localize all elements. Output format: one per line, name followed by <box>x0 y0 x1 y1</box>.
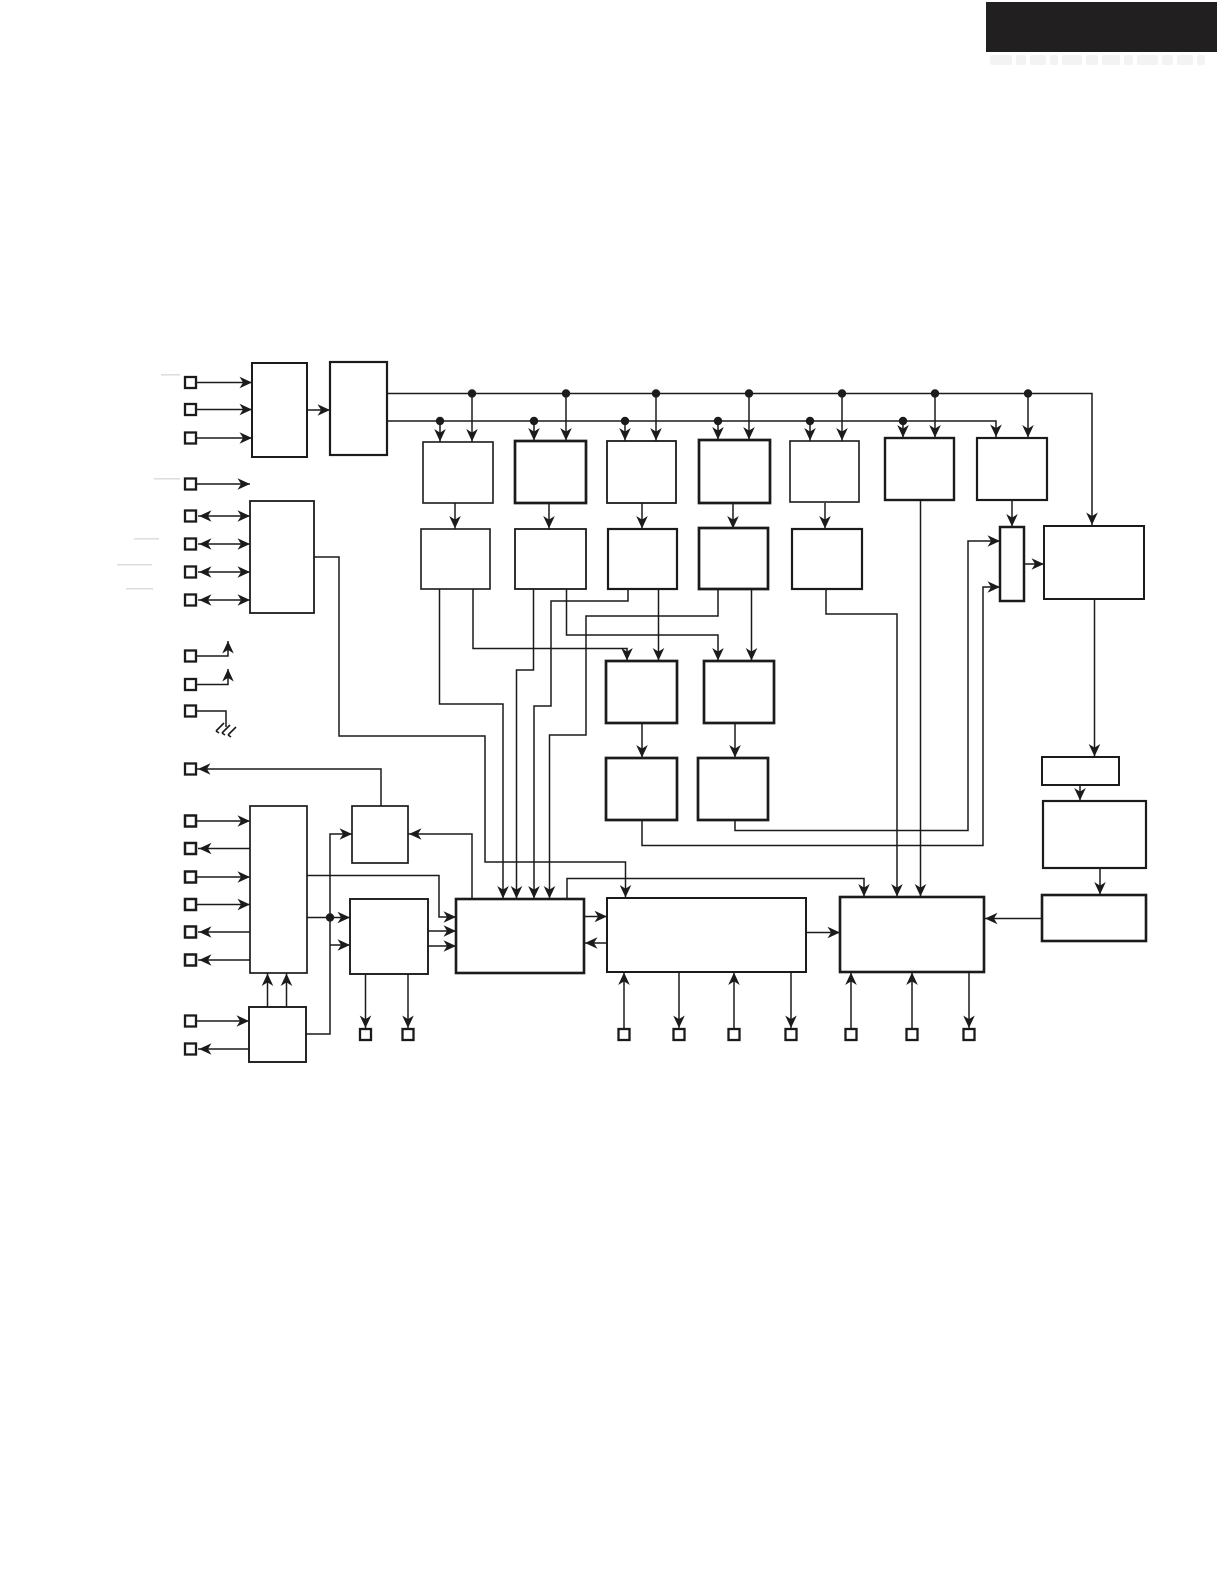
wire block K to block L <box>584 911 607 923</box>
wire block L to block K <box>584 937 607 949</box>
wire top-row to second-row at x=733 <box>727 503 739 529</box>
wire block J down to bottom pad 1 <box>360 974 372 1028</box>
wire second-row block3 right output to block M1 <box>653 589 665 661</box>
wire top-row block 7 down to narrow block N <box>1006 500 1018 527</box>
wire block L down to bottom pad 6 <box>785 972 797 1028</box>
junction dot bus1 over block 6 <box>931 389 939 397</box>
header bar (solid black title block) <box>986 2 1217 52</box>
block M2 <box>704 661 774 723</box>
wire top-row to second-row at x=549 <box>543 503 555 529</box>
second-row block 1 <box>421 529 490 589</box>
junction dot bus2 over block 6 <box>899 417 907 425</box>
junction dot bus1 over block 7 <box>1024 389 1032 397</box>
wire pad group1 #3 to block A <box>196 432 252 444</box>
pad CN group1 #2 <box>185 404 196 415</box>
wire bus1 drop into top-row block 6 <box>929 394 941 439</box>
bottom pad 5 <box>729 1029 740 1040</box>
pad group6 #2 <box>185 843 196 854</box>
top-row block 7 <box>977 438 1047 500</box>
wire block G to block M right edge <box>984 913 1042 925</box>
block I <box>352 806 408 863</box>
wire block P to block H arrow 1 <box>262 973 274 1007</box>
junction dot bus1 over block 2 <box>562 389 570 397</box>
wire block D down to block E <box>1089 599 1101 757</box>
wire bus1 drop into top-row block 2 <box>560 394 572 442</box>
top-row block 3 <box>607 441 676 503</box>
wire second-row block5 output to block M <box>826 589 903 897</box>
junction dot H/P riser <box>326 913 334 921</box>
junction dot bus2 over block 4 <box>714 417 722 425</box>
bottom pad 6 <box>786 1029 797 1040</box>
top-row block 5 <box>790 441 859 502</box>
pad CN group1 #1 <box>185 377 196 388</box>
wire block H out to pad group6 #6 <box>198 954 250 966</box>
wire bidirectional pad group3 #3 to block C <box>198 566 250 578</box>
wire bus2 drop into top-row block 4 <box>712 421 724 440</box>
wire block L to block M left edge <box>806 927 840 939</box>
wire block J down to bottom pad 2 <box>402 974 414 1028</box>
pad single group5 <box>185 764 196 775</box>
wire block J to block K lower <box>428 940 456 952</box>
pad group3 #2 <box>185 539 196 550</box>
wire block I top to pad group5 <box>196 763 381 806</box>
wire block M1 to block M3 <box>636 723 648 758</box>
top-row block 1 <box>423 442 493 503</box>
wire pad group6 #4 into block H <box>196 899 250 911</box>
faint label remnant line <box>126 588 153 590</box>
pad CN group1 #3 <box>185 433 196 444</box>
wire bus2 drop into top-row block 3 <box>619 421 631 441</box>
bottom pad 7 <box>846 1029 857 1040</box>
block D <box>1044 526 1144 599</box>
wire pad group6 #1 into block H <box>196 815 250 827</box>
wire riser from block P joining junction, up to block I <box>306 828 352 1034</box>
wire pad group6 #3 into block H <box>196 871 250 883</box>
pad group3 #1 <box>185 511 196 522</box>
pad group3 #3 <box>185 567 196 578</box>
wire bus line 1 from block B to block D <box>387 394 1098 527</box>
top-row block 2 <box>515 441 586 503</box>
junction dot bus1 over block 3 <box>652 389 660 397</box>
wire bus1 drop into top-row block 4 <box>743 394 755 441</box>
wire bottom pad 5 up into block L <box>728 972 740 1029</box>
ground symbol <box>216 723 236 737</box>
wire bottom pad 3 up into block L <box>618 972 630 1029</box>
wire bus line 2 from block B to block 7 top <box>387 421 1002 438</box>
block K <box>456 899 584 973</box>
block A <box>252 363 307 457</box>
bottom pad 4 <box>674 1029 685 1040</box>
junction dot bus1 over block 5 <box>838 389 846 397</box>
wire block K top riser to block I right edge <box>408 828 472 899</box>
wire bus1 drop into top-row block 3 <box>650 394 662 442</box>
wire pad group4 #3 to ground <box>196 711 226 727</box>
wire bus2 drop into top-row block 6 <box>897 421 909 438</box>
wire bottom pad 8 up into block M <box>906 972 918 1029</box>
block L <box>607 898 806 972</box>
block B <box>330 362 387 455</box>
wire riser branch to block J lower arrow <box>330 939 350 951</box>
wire block M4 output to narrow block N upper arrow <box>735 535 1000 830</box>
bottom pad 3 <box>619 1029 630 1040</box>
wire bidirectional pad group3 #1 to block C <box>198 510 250 522</box>
wire pad group4 #2 up-arrow stub <box>196 669 234 685</box>
faint label remnant line <box>134 538 159 540</box>
block M <box>840 897 984 972</box>
pad group6 #1 <box>185 816 196 827</box>
second-row block 5 <box>792 529 862 589</box>
wire bus1 drop into top-row block 1 <box>466 394 478 443</box>
pad single group2 <box>185 479 196 490</box>
wire block H out to pad group6 #2 <box>198 843 250 855</box>
block M3 <box>606 758 677 820</box>
pad group7 #1 <box>185 1016 196 1027</box>
junction dot bus2 over block 3 <box>621 417 629 425</box>
wire block M2 to block M4 <box>729 723 741 758</box>
wire top-row block 6 down to block M <box>915 500 927 897</box>
wire block H right to block K left arrow 1 <box>307 876 456 923</box>
block C <box>250 501 314 613</box>
junction dot bus1 over block 4 <box>745 389 753 397</box>
wire second-row block4 left output to block K arrow 4 <box>544 589 718 899</box>
wire second-row block1 left output to block K arrow 1 <box>440 589 509 899</box>
pad group7 #2 <box>185 1044 196 1055</box>
block F <box>1043 801 1146 868</box>
pad group6 #3 <box>185 872 196 883</box>
pad group6 #5 <box>185 927 196 938</box>
wire second-row block2 right output to block M2 <box>567 589 724 661</box>
block P <box>249 1007 306 1062</box>
wire second-row block4 right output to block M2 <box>746 589 758 661</box>
wire block A to block B <box>307 404 330 416</box>
second-row block 2 <box>515 529 586 589</box>
wire bidirectional pad group3 #2 to block C <box>198 538 250 550</box>
faint label remnant line <box>161 374 180 376</box>
wire pad group4 #1 up-arrow stub <box>196 641 234 656</box>
wire block E to block F <box>1074 785 1086 801</box>
wire block K top riser to block M top arrow 1 <box>567 879 870 900</box>
wire bus2 drop into top-row block 2 <box>528 421 540 441</box>
block H <box>250 806 307 973</box>
bottom pad 8 <box>907 1029 918 1040</box>
wire top-row to second-row at x=642 <box>636 503 648 529</box>
pad group6 #4 <box>185 899 196 910</box>
pad group4 #1 <box>185 651 196 662</box>
junction dot bus2 over block 5 <box>806 417 814 425</box>
wire top-row to second-row at x=455 <box>449 503 461 529</box>
block M1 <box>606 661 677 723</box>
block E <box>1042 757 1119 785</box>
faint ghost text row under header <box>990 55 1205 65</box>
wire block M down to bottom pad 9 <box>963 972 975 1028</box>
faint label remnant line <box>154 478 180 480</box>
wire second-row block1 right output to block M1 <box>473 589 633 661</box>
junction dot bus2 over block 1 <box>436 417 444 425</box>
wire pad group2 stub <box>196 478 250 490</box>
block G <box>1042 895 1146 941</box>
wire block L down to bottom pad 4 <box>673 972 685 1028</box>
wire bottom pad 7 up into block M <box>845 972 857 1029</box>
wire block P out to pad group7 #2 <box>198 1043 249 1055</box>
wire pad group1 #2 to block A <box>196 404 252 416</box>
wire block H out to pad group6 #5 <box>198 926 250 938</box>
second-row block 4 <box>699 528 768 589</box>
wire block C output routed to block L top <box>314 557 631 898</box>
wire second-row block3 left output to block K arrow 3 <box>528 589 628 899</box>
top-row block 6 <box>885 438 954 500</box>
wire block P to block H arrow 2 <box>281 973 293 1007</box>
wire pad group1 #1 to block A <box>196 377 252 389</box>
bottom pad 9 <box>964 1029 975 1040</box>
wire bus2 drop into top-row block 1 <box>434 421 446 442</box>
wire pad group7 #1 into block P <box>196 1015 249 1027</box>
top-row block 4 <box>699 440 770 503</box>
wire second-row block2 left output to block K arrow 2 <box>511 589 534 899</box>
bottom pad 1 <box>360 1029 371 1040</box>
wire bus2 drop into top-row block 5 <box>804 421 816 441</box>
junction dot bus1 over block 1 <box>468 389 476 397</box>
wire bus1 drop into top-row block 5 <box>836 394 848 442</box>
wire narrow block N to block D <box>1024 558 1044 570</box>
block M4 <box>698 758 768 820</box>
second-row block 3 <box>608 529 677 589</box>
bottom pad 2 <box>403 1029 414 1040</box>
faint label remnant line <box>117 564 152 566</box>
wire block J to block K upper <box>428 925 456 937</box>
wire bus1 drop into top-row block 7 <box>1022 394 1034 439</box>
wire bidirectional pad group3 #4 to block C <box>198 594 250 606</box>
pad group4 #3 (ground pin) <box>185 706 196 717</box>
wire block H output to block J upper arrow <box>307 912 350 924</box>
wire top-row to second-row at x=825 <box>819 503 831 529</box>
junction dot bus2 over block 2 <box>530 417 538 425</box>
block J <box>350 899 428 974</box>
pad group3 #4 <box>185 595 196 606</box>
pad group6 #6 <box>185 955 196 966</box>
wire block M3 output to narrow block N lower arrow <box>642 581 1000 845</box>
pad group4 #2 <box>185 679 196 690</box>
narrow block N <box>1000 527 1024 601</box>
wire block F to block G <box>1094 868 1106 895</box>
